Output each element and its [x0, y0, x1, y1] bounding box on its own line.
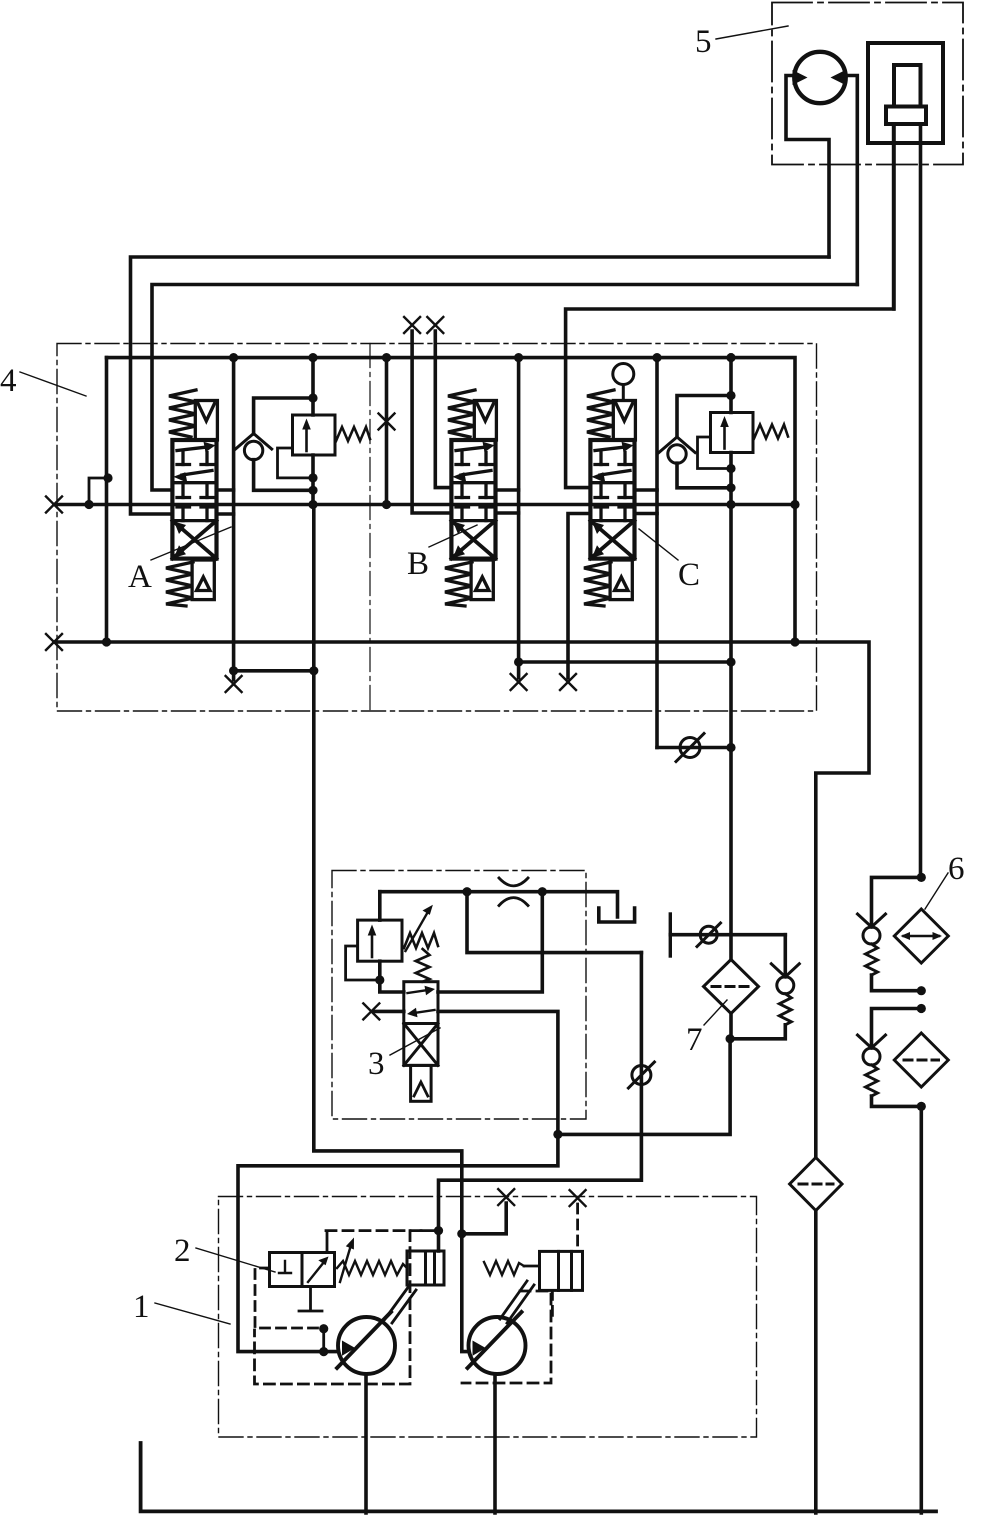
leader line 2: [196, 1248, 275, 1272]
wire gallery branch down: [438, 892, 542, 992]
wire pump 1 suction: [364, 1374, 368, 1513]
lever pump 2: [500, 1281, 534, 1323]
relief valve RV-C spring: [754, 425, 788, 439]
relief valve RV-C body: [711, 413, 754, 453]
tank symbol: [599, 908, 635, 922]
valve 3 blocked port: [373, 1010, 404, 1014]
valve 2 pilot riser: [326, 1231, 329, 1253]
wire top pressure bus: [107, 358, 796, 642]
valve A spool section: [166, 390, 217, 606]
relief valve RV-A spring: [336, 427, 370, 441]
wire feed stub 1: [462, 1203, 506, 1234]
wire return link left: [234, 669, 314, 673]
leader line 1: [155, 1303, 230, 1324]
wire valve C left drop: [568, 514, 590, 679]
check valve CV-A stem: [254, 398, 313, 434]
check valve CV-C ball: [668, 445, 686, 463]
svg-text:7: 7: [686, 1022, 703, 1058]
check valve CV-P seat: [697, 923, 721, 947]
filter 6 lower element: [894, 1033, 948, 1087]
wire service line 1 (motor left to valve A): [131, 257, 830, 514]
wire pilot tap pump 1: [322, 1329, 325, 1352]
servo cylinder pump 1: [407, 1251, 444, 1285]
valve 2 left port dashed: [255, 1268, 321, 1328]
wire feed A (left long drop to pump 2): [314, 505, 469, 1352]
valve 3 crossed box: [404, 1024, 438, 1066]
pilot dashed stub 2: [576, 1204, 579, 1251]
X mark feed stub 1: [498, 1189, 514, 1205]
bypass check filter 7: [783, 935, 787, 977]
valve 3 body: [404, 982, 438, 1066]
relief valve RV-C vertical run: [729, 355, 733, 662]
cylinder U2 body: [868, 43, 943, 143]
check valve CV-T seat: [676, 734, 704, 762]
junction bypass drop / lower bus: [102, 637, 111, 646]
relief valve RV-C pilot loop: [698, 437, 732, 469]
adjustment arrow spring 1: [340, 1245, 351, 1282]
junction dots A assembly: [229, 353, 238, 362]
svg-text:3: 3: [368, 1046, 385, 1082]
return filter element: [790, 1158, 842, 1211]
leader line A: [151, 527, 231, 560]
wire mid bus: [54, 503, 795, 507]
wire valve A right ports: [217, 490, 234, 514]
svg-text:1: 1: [133, 1289, 150, 1325]
X mark drop C end: [560, 674, 576, 690]
wire bleed line AB: [385, 358, 389, 505]
relief valve RV-A vertical run: [311, 358, 315, 505]
feedback dashed box pump 1: [325, 1229, 421, 1232]
check valve CV-F seat: [628, 1062, 654, 1088]
bypass loop filter 6 lower: [872, 1009, 922, 1049]
wire valve A right channel: [232, 358, 236, 680]
relief valve RV-A arrow: [305, 426, 308, 451]
spring valve 2 to servo: [337, 1261, 407, 1275]
svg-text:4: 4: [0, 363, 17, 399]
relief valve RV-A body: [293, 415, 336, 455]
orifice symbol: [499, 878, 528, 906]
tank boundary: [141, 1443, 936, 1511]
relief valve RV-3 spring: [404, 933, 438, 948]
junction right riser / lower bus: [790, 637, 799, 646]
hydraulic motor M (bidirectional): [793, 52, 846, 103]
check valve CV-F ball: [632, 1066, 651, 1085]
wire valve B right channel: [517, 358, 521, 678]
wire valve 3 to pump 1 feed: [238, 1011, 558, 1351]
wire box3 top gallery: [380, 892, 618, 917]
servo cylinder pump 2: [540, 1251, 583, 1290]
filter 7 element: [704, 960, 759, 1014]
adjustment arrow RV-3: [406, 910, 430, 951]
section divider line: [369, 344, 371, 712]
wire motor left port: [786, 76, 829, 258]
servo feedback line pump 1: [421, 1229, 439, 1232]
svg-text:C: C: [678, 557, 700, 593]
wire orifice branch down: [467, 892, 641, 953]
wire motor right port: [842, 76, 857, 285]
X mark channel A end: [226, 676, 242, 692]
wire service line 2 (motor right to valve A): [152, 285, 857, 491]
leader line 3: [390, 1028, 440, 1055]
valve 3 arrow left: [414, 1010, 435, 1013]
wire service line 3 (cylinder to valve C): [566, 124, 894, 488]
filter 6 upper element: [894, 909, 948, 963]
bypass loop filter 6 upper: [872, 877, 922, 927]
enclosure box 5 (power unit frame): [772, 3, 963, 165]
leader line 7: [704, 1000, 727, 1025]
check valve CV-T ball: [680, 738, 700, 758]
leader line 5: [716, 26, 788, 39]
X mark feed stub 2: [570, 1190, 586, 1206]
servo 2 drain dashed: [551, 1290, 554, 1318]
pilot knob circle on valve C: [613, 364, 634, 385]
wire filter branch down: [439, 953, 642, 1231]
X mark mid bus left end: [46, 497, 62, 513]
wire drain header: [558, 1039, 730, 1135]
enclosure box 4 (valve bank): [57, 344, 817, 712]
enclosure box 3 (pilot supply unit): [332, 871, 586, 1120]
valve 2 arrow: [308, 1262, 324, 1282]
wire lower bus: [54, 642, 869, 1157]
spring pump 2 servo: [484, 1261, 524, 1275]
relief valve RV-3 pilot loop: [346, 946, 380, 980]
check valve CV-A seat: [236, 434, 272, 450]
check valve CV-P ball: [700, 926, 717, 943]
X mark stub 1: [404, 317, 420, 333]
centering spring valve 3: [416, 949, 430, 982]
pump 1 variable displacement: [337, 1312, 395, 1374]
wire valve C right ports: [635, 490, 658, 514]
test port bar: [669, 914, 672, 956]
wire cylinder right line: [919, 124, 923, 877]
check valve CV-C outlet: [677, 463, 731, 488]
svg-text:A: A: [128, 559, 152, 595]
control valve 2 body: [270, 1253, 335, 1287]
wire servo 1 riser: [437, 1231, 441, 1251]
relief valve RV-3 arrow: [371, 932, 374, 957]
check valve CV-T line: [657, 662, 731, 1039]
leader line C: [639, 529, 678, 560]
wire valve B service stub 2: [435, 331, 451, 488]
X mark bleed AB: [379, 414, 395, 430]
wire return link right: [519, 660, 731, 664]
wire return filter to tank: [814, 1211, 818, 1514]
valve 2 drain port: [299, 1287, 322, 1312]
svg-text:B: B: [407, 546, 429, 582]
leader line B: [429, 525, 477, 547]
wire cylinder left line: [892, 124, 896, 309]
relief valve RV-A pilot loop: [278, 448, 314, 478]
lever pump 1: [385, 1286, 416, 1323]
stub knob to valve C: [622, 385, 625, 401]
junction dots C assembly: [652, 353, 661, 362]
wire pump 2 suction: [493, 1374, 497, 1513]
X mark channel B end: [511, 674, 527, 690]
wire bypass left drop: [105, 358, 109, 642]
svg-text:2: 2: [174, 1233, 191, 1269]
check valve CV-C stem: [677, 396, 731, 438]
svg-text:5: 5: [695, 24, 712, 60]
valve 2 internal port: [279, 1261, 291, 1273]
cylinder piston: [886, 107, 926, 125]
leader line 6: [925, 873, 948, 909]
enclosure box 1 (pump unit): [219, 1197, 757, 1438]
cylinder piston rod: [894, 65, 921, 107]
junction right riser / mid bus: [790, 500, 799, 509]
wire jog link: [89, 478, 109, 505]
valve B spool section: [445, 390, 496, 606]
relief valve RV-3 body: [358, 920, 402, 961]
valve C spool section: [584, 390, 635, 606]
feedback dashed box pump 2: [462, 1291, 551, 1383]
svg-text:6: 6: [948, 851, 965, 887]
solenoid actuator valve 3: [411, 1065, 432, 1101]
check valve CV-A outlet: [254, 460, 313, 491]
wire valve B right ports: [496, 490, 519, 513]
wire valve C right channel: [655, 358, 659, 748]
wire valve B service stub 1: [412, 331, 451, 513]
junction feed B tee: [553, 1130, 562, 1139]
junction jog: [84, 500, 93, 509]
test port line: [670, 933, 785, 937]
valve 3 arrow right: [408, 990, 429, 993]
relief valve RV-3 run: [380, 892, 404, 992]
wire filter 6 to tank: [919, 1106, 923, 1513]
leader line 4: [20, 372, 86, 396]
check valve CV-C seat: [659, 437, 695, 453]
relief valve RV-C arrow: [723, 424, 726, 449]
X mark lower bus left end: [46, 634, 62, 650]
check valve CV-A ball: [244, 441, 262, 459]
pump 2 variable displacement: [468, 1312, 526, 1374]
X mark stub 2: [427, 317, 443, 333]
